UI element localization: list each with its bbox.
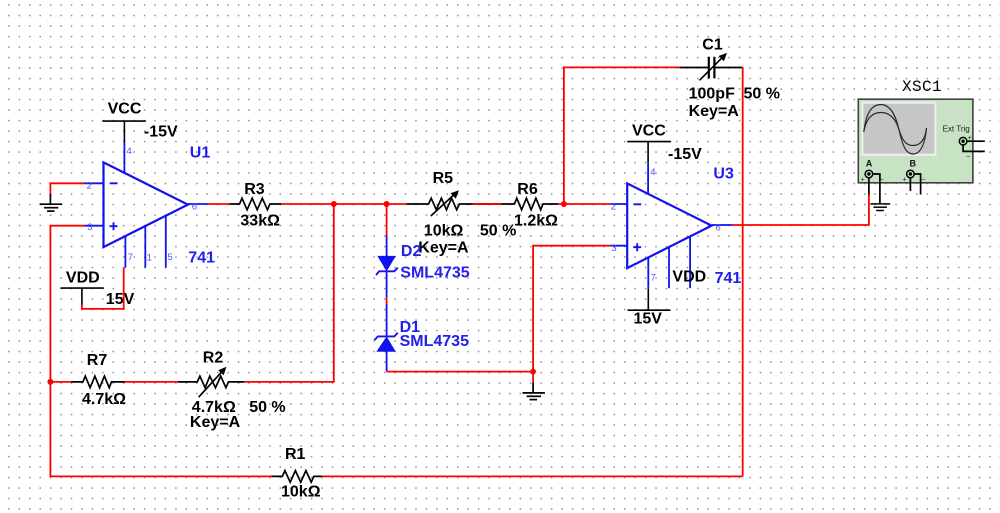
op-amp U1 pin 2 stub bbox=[85, 182, 104, 184]
junction node N1 bbox=[47, 379, 53, 385]
svg-text:U1: U1 bbox=[190, 144, 211, 161]
op-amp U1 pin 7 lead bbox=[124, 236, 126, 268]
svg-text:50 %: 50 % bbox=[480, 223, 516, 240]
svg-text:B: B bbox=[910, 158, 917, 168]
svg-text:VCC: VCC bbox=[632, 122, 666, 139]
variable capacitor C1 bbox=[680, 37, 780, 121]
svg-text:4: 4 bbox=[127, 146, 132, 157]
op-amp U1 plus mark bbox=[110, 222, 118, 230]
svg-text:741: 741 bbox=[188, 249, 215, 266]
svg-text:50 %: 50 % bbox=[744, 86, 780, 103]
wire VDD to U1 pin 7 bbox=[82, 268, 124, 309]
resistor R6 bbox=[473, 181, 559, 230]
svg-text:R3: R3 bbox=[244, 181, 265, 198]
svg-text:C1: C1 bbox=[702, 37, 723, 54]
wire GND1 to U1 pin2 bbox=[50, 183, 84, 194]
svg-text:33kΩ: 33kΩ bbox=[240, 212, 280, 229]
wire R3 to R5 (nodes N2,N3) bbox=[281, 203, 406, 205]
svg-text:1.2kΩ: 1.2kΩ bbox=[514, 213, 558, 230]
svg-text:Key=A: Key=A bbox=[689, 103, 740, 120]
op-amp U3 pin 4 lead bbox=[647, 163, 649, 195]
svg-text:6: 6 bbox=[192, 201, 197, 212]
svg-text:7: 7 bbox=[651, 273, 656, 284]
wire node N3 to D2 anode bbox=[386, 204, 388, 236]
svg-text:VDD: VDD bbox=[66, 270, 100, 287]
junction node N4 bbox=[561, 201, 567, 207]
op-amp U1 pin 3 stub bbox=[85, 225, 104, 227]
op-amp U3 plus mark bbox=[633, 243, 641, 251]
wire R6 to U3 pin2 (node N4) bbox=[558, 203, 610, 205]
oscilloscope terminal A bbox=[861, 158, 884, 194]
op-amp U3 body bbox=[627, 183, 711, 268]
svg-text:R2: R2 bbox=[203, 350, 224, 367]
op-amp U3 pin 1 lead bbox=[668, 247, 670, 289]
potentiometer R5 bbox=[407, 170, 517, 256]
op-amp U3 output stub pin 6 bbox=[712, 224, 733, 226]
svg-text:U3: U3 bbox=[713, 166, 734, 183]
op-amp U3 pin 7 lead bbox=[647, 257, 649, 289]
svg-text:VCC: VCC bbox=[108, 101, 142, 118]
op-amp U1 output stub pin 6 bbox=[188, 203, 208, 205]
oscilloscope trace channel B bbox=[864, 113, 927, 146]
svg-text:A: A bbox=[866, 158, 873, 168]
svg-text:VDD: VDD bbox=[672, 268, 706, 285]
terminal B stub wires bbox=[910, 174, 920, 195]
ground GND2 (mid) bbox=[523, 383, 545, 400]
svg-text:2: 2 bbox=[87, 181, 92, 192]
op-amp U3 pin 5 lead bbox=[689, 236, 691, 288]
wire node N5 to U3 pin3 bbox=[533, 246, 610, 372]
svg-text:+: + bbox=[861, 176, 865, 183]
oscilloscope trace channel A bbox=[864, 105, 927, 155]
wire node N1 to R7 bbox=[50, 381, 71, 383]
wire D1 cathode to ground node N5 bbox=[387, 371, 533, 373]
wire C1 right to output/feedback column bbox=[742, 67, 744, 476]
svg-text:+: + bbox=[902, 176, 906, 183]
VCC power symbol (U3) bbox=[627, 122, 702, 163]
resistor R3 bbox=[229, 181, 281, 229]
svg-text:741: 741 bbox=[715, 270, 742, 287]
svg-text:3: 3 bbox=[611, 243, 616, 254]
op-amp U1 minus mark bbox=[110, 182, 118, 184]
svg-text:-15V: -15V bbox=[668, 146, 702, 163]
svg-text:4: 4 bbox=[650, 167, 655, 178]
op-amp U3 pin 3 stub bbox=[610, 245, 627, 247]
oscilloscope XSC1 body bbox=[858, 78, 973, 183]
svg-text:R1: R1 bbox=[285, 446, 306, 463]
svg-text:15V: 15V bbox=[634, 311, 663, 328]
svg-text:10kΩ: 10kΩ bbox=[281, 484, 321, 501]
Ext Trig stub wires bbox=[963, 141, 985, 151]
VDD power symbol (U1) bbox=[61, 270, 135, 309]
svg-text:-15V: -15V bbox=[144, 124, 178, 141]
svg-text:R7: R7 bbox=[87, 352, 108, 369]
ground GND3 (scope) bbox=[870, 204, 890, 211]
wire R7 to R2 bbox=[125, 381, 178, 383]
svg-text:1: 1 bbox=[147, 253, 152, 264]
svg-text:−: − bbox=[921, 177, 925, 184]
wire node N1 to R1 (bottom feedback) bbox=[50, 382, 271, 477]
op-amp U1 pin 1 lead bbox=[144, 226, 146, 268]
wire U1 output to R3 bbox=[208, 203, 230, 205]
svg-text:7: 7 bbox=[128, 252, 133, 263]
svg-text:Key=A: Key=A bbox=[190, 414, 241, 431]
svg-text:4.7kΩ: 4.7kΩ bbox=[82, 391, 126, 408]
resistor R1 bbox=[272, 446, 322, 501]
wire stub between D2 and D1 bbox=[386, 298, 388, 304]
op-amp U1 pin 5 lead bbox=[165, 216, 167, 268]
wire red stub N5 to GND2 bbox=[532, 372, 534, 383]
junction node N5 bbox=[530, 369, 536, 375]
svg-text:5: 5 bbox=[168, 252, 173, 263]
wire terminal A to scope ground bbox=[873, 174, 880, 203]
wire R1 to output column bbox=[322, 475, 743, 477]
svg-text:10kΩ: 10kΩ bbox=[424, 223, 464, 240]
ground GND1 (left of U1) bbox=[40, 194, 63, 211]
svg-text:−: − bbox=[966, 154, 970, 161]
svg-text:Key=A: Key=A bbox=[418, 239, 469, 256]
junction node N2 bbox=[331, 201, 337, 207]
svg-text:R6: R6 bbox=[517, 181, 538, 198]
svg-text:100pF: 100pF bbox=[689, 86, 735, 103]
resistor R7 bbox=[71, 352, 126, 408]
op-amp U1 body bbox=[104, 162, 188, 247]
svg-text:50 %: 50 % bbox=[249, 399, 285, 416]
potentiometer R2 bbox=[178, 350, 286, 431]
svg-text:2: 2 bbox=[611, 201, 616, 212]
wire node N4 to C1 left bbox=[564, 67, 680, 204]
Ext Trig terminal bbox=[943, 125, 972, 161]
svg-text:15V: 15V bbox=[106, 291, 135, 308]
op-amp U3 minus mark bbox=[633, 203, 641, 205]
zener diode D2 bbox=[376, 235, 470, 298]
zener diode D1 bbox=[374, 304, 469, 372]
op-amp U3 pin 2 stub bbox=[610, 203, 627, 205]
svg-text:Ext Trig: Ext Trig bbox=[943, 125, 970, 134]
junction node N3 bbox=[384, 201, 390, 207]
svg-text:R5: R5 bbox=[433, 170, 454, 187]
15V power symbol (U3 pin 7) bbox=[628, 288, 671, 328]
wire U3 output to oscilloscope A bbox=[733, 194, 869, 225]
VCC power symbol (U1) bbox=[103, 101, 179, 143]
wire R5 to R6 bbox=[473, 203, 502, 205]
oscilloscope terminal B bbox=[902, 158, 925, 183]
wire U1 pin3 to node N1 (left vertical) bbox=[50, 226, 84, 382]
svg-text:SML4735: SML4735 bbox=[400, 333, 469, 350]
svg-text:3: 3 bbox=[87, 222, 92, 233]
svg-text:SML4735: SML4735 bbox=[400, 264, 469, 281]
svg-text:D2: D2 bbox=[401, 243, 422, 260]
svg-text:6: 6 bbox=[716, 222, 721, 233]
wire R2 to node N2 bbox=[244, 204, 334, 382]
op-amp U1 pin 4 lead bbox=[123, 142, 125, 174]
svg-text:XSC1: XSC1 bbox=[902, 78, 942, 96]
